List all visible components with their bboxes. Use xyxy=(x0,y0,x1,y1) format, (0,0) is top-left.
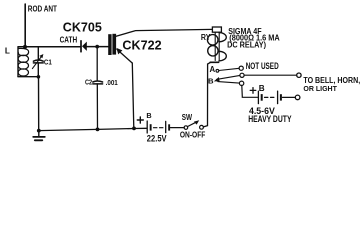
svg-text:ROD ANT: ROD ANT xyxy=(28,4,58,14)
svg-text:ON-OFF: ON-OFF xyxy=(180,131,205,140)
armature B arrow xyxy=(214,77,220,81)
antenna rod xyxy=(24,4,26,47)
armature B arm upper xyxy=(217,75,241,79)
node antenna junction xyxy=(23,45,27,49)
terminal bell left xyxy=(297,73,301,77)
emitter wire with arrow xyxy=(116,48,132,63)
wire c2 to bell terminal xyxy=(244,74,297,76)
capacitor C2 xyxy=(93,47,103,130)
capacitor C1 variable xyxy=(32,47,43,77)
wire collector to relay xyxy=(116,29,212,36)
svg-text:B: B xyxy=(259,84,265,93)
node emitter rail xyxy=(132,126,136,130)
svg-text:L: L xyxy=(5,46,10,55)
wire emitter down xyxy=(132,63,134,128)
label plus left battery xyxy=(137,117,143,123)
svg-text:B: B xyxy=(208,77,214,86)
diode CK705 xyxy=(81,41,87,52)
svg-text:HEAVY DUTY: HEAVY DUTY xyxy=(248,113,292,124)
battery B 22.5V xyxy=(147,121,170,133)
svg-text:A: A xyxy=(210,65,216,74)
switch SW xyxy=(184,120,203,129)
contact c2 xyxy=(240,73,244,77)
svg-text:.001: .001 xyxy=(106,78,119,87)
svg-text:22.5V: 22.5V xyxy=(147,133,167,143)
wire bottom rail xyxy=(39,128,147,130)
svg-text:SW: SW xyxy=(182,113,193,122)
svg-text:CATH: CATH xyxy=(60,35,78,45)
battery 4.5-6V xyxy=(258,91,282,103)
svg-text:NOT USED: NOT USED xyxy=(246,61,279,71)
svg-text:C1: C1 xyxy=(44,58,52,67)
wire top left xyxy=(18,46,80,48)
wire down to ground rail xyxy=(38,77,40,131)
terminal bell right xyxy=(295,95,300,100)
transistor CK722 base bars xyxy=(108,34,116,55)
wire coil bottom xyxy=(18,76,38,78)
node coil C1 junction xyxy=(37,75,41,79)
svg-text:RY: RY xyxy=(201,33,211,42)
node C2 junction xyxy=(95,45,99,49)
wire battery to switch xyxy=(170,127,184,129)
svg-text:DC RELAY): DC RELAY) xyxy=(227,40,266,49)
wire battery to terminal xyxy=(283,96,296,98)
svg-text:B: B xyxy=(146,111,151,120)
armature A pivot xyxy=(216,69,219,72)
ground xyxy=(33,131,45,141)
wire c3 down to battery xyxy=(242,85,258,97)
node ground junction xyxy=(37,129,41,133)
armature B arm lower xyxy=(218,82,239,84)
svg-text:C2: C2 xyxy=(85,79,92,87)
inductor L xyxy=(18,48,29,77)
relay RY coil xyxy=(207,27,226,62)
label plus right battery xyxy=(250,88,256,94)
contact c1 xyxy=(239,66,243,70)
contact c3 xyxy=(239,81,243,85)
svg-text:OR LIGHT: OR LIGHT xyxy=(303,84,337,93)
svg-text:CK722: CK722 xyxy=(122,38,161,53)
wire diode to base xyxy=(87,46,109,48)
node C2 bottom xyxy=(96,127,100,131)
armature A arm xyxy=(219,68,239,70)
wire switch to relay coil xyxy=(203,62,210,127)
svg-text:CK705: CK705 xyxy=(63,20,102,35)
